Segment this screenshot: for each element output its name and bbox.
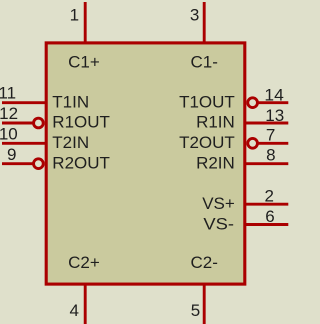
pin 14 inversion bubble [248,98,258,108]
svg-text:14: 14 [264,85,283,104]
pin 12 wire (left, R1OUT) [2,122,33,125]
svg-text:C1+: C1+ [68,52,100,71]
svg-text:13: 13 [265,106,284,125]
svg-text:8: 8 [266,146,275,165]
svg-text:T1IN: T1IN [52,92,89,111]
svg-text:7: 7 [266,126,275,145]
IC body (MAX232) [46,43,245,284]
svg-text:12: 12 [0,104,18,123]
pin 13 wire (right, R1IN) [245,122,288,125]
pin 2 wire (right, VS+) [245,203,288,206]
svg-text:R2IN: R2IN [196,153,235,172]
svg-text:3: 3 [190,5,199,24]
svg-text:1: 1 [70,5,79,24]
pin 8 wire (right, R2IN) [245,162,288,165]
svg-text:4: 4 [70,301,79,320]
svg-text:10: 10 [0,125,18,144]
pin 3 wire (top, C1-) [203,2,206,43]
svg-text:2: 2 [265,187,274,206]
pin 12 inversion bubble [34,118,44,128]
svg-text:R2OUT: R2OUT [52,153,110,172]
pin 5 wire (bottom, C2-) [203,284,206,324]
pin 7 wire (right, T2OUT) [258,142,288,145]
pin 11 wire (left, T1IN) [2,101,46,104]
svg-text:5: 5 [191,301,200,320]
pin 9 inversion bubble [34,159,44,169]
svg-text:11: 11 [0,84,16,103]
svg-text:VS+: VS+ [202,194,235,213]
svg-text:R1OUT: R1OUT [52,113,110,132]
pin 4 wire (bottom, C2+) [84,284,87,324]
pin 6 wire (right, VS-) [245,223,288,226]
svg-text:T2OUT: T2OUT [179,133,235,152]
svg-text:VS-: VS- [203,215,234,234]
svg-text:C2+: C2+ [68,253,100,272]
pin 14 wire (right, T1OUT) [258,101,288,104]
svg-text:9: 9 [7,145,16,164]
svg-text:T2IN: T2IN [52,133,89,152]
svg-text:T1OUT: T1OUT [179,92,235,111]
pin 10 wire (left, T2IN) [2,142,46,145]
svg-text:6: 6 [265,207,274,226]
pin 1 wire (top, C1+) [84,2,87,43]
svg-text:C2-: C2- [190,253,217,272]
pin 9 wire (left, R2OUT) [2,162,33,165]
svg-text:C1-: C1- [190,52,217,71]
svg-text:R1IN: R1IN [196,113,235,132]
pin 7 inversion bubble [248,138,258,148]
